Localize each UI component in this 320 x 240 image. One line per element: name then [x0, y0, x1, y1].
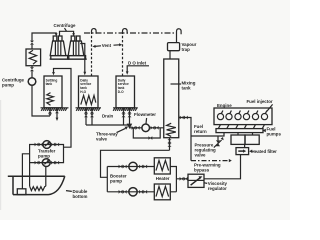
svg-text:H-O: H-O [80, 90, 86, 94]
svg-text:tank: tank [182, 85, 192, 90]
label Booster pump [110, 174, 127, 184]
label Fuel return [194, 124, 207, 134]
wire drain header [86, 124, 130, 126]
daily service tank HO [79, 76, 99, 108]
svg-text:Centrifuge: Centrifuge [54, 23, 77, 28]
heated filter [236, 148, 249, 155]
label Heated filter with arrow [249, 149, 277, 154]
double bottom hull [8, 176, 65, 194]
valves after flowmeter [151, 126, 159, 130]
vent riser HO tank [92, 29, 97, 76]
svg-text:Drain: Drain [102, 114, 114, 119]
pressure regulating valve [214, 136, 224, 148]
centrifuge pump P1 [28, 78, 36, 86]
svg-text:pump: pump [110, 179, 122, 184]
heating coil in double bottom [30, 186, 46, 190]
svg-text:return: return [194, 129, 207, 134]
wire mixing tank bottom drop [168, 138, 172, 151]
booster pump no.1 [129, 162, 137, 170]
booster bottom branch [107, 191, 154, 193]
fuel pump drive links [218, 125, 264, 129]
wire fuel return into mixing tank [179, 116, 191, 161]
label DO inlet with fill line [126, 60, 149, 74]
wire transfer suction from double bottom [22, 154, 29, 189]
pre-warming bypass dash-dot line [191, 159, 232, 162]
centrifuge no.2 (clarifier) [68, 36, 87, 59]
valves before flowmeter [132, 126, 140, 130]
svg-text:valve: valve [96, 136, 108, 141]
wire fuel return header [191, 133, 224, 136]
flowmeter [142, 124, 150, 132]
label Double bottom with leader [66, 189, 88, 199]
booster pump loop left side [106, 167, 108, 192]
wire supply riser to heated filter [204, 155, 241, 179]
valve below heater [30, 66, 34, 78]
wire main line to flowmeter [130, 127, 164, 129]
wire heater outlets join [170, 167, 188, 192]
wire transfer riser to settling tank [52, 69, 71, 148]
transfer pump no.2 [42, 159, 50, 167]
engine cylinders [217, 114, 267, 120]
label Engine [217, 103, 232, 108]
injector ticks on cylinders [221, 111, 267, 114]
label Viscosity regulator [204, 181, 227, 191]
valves transfer bottom branch [35, 161, 60, 165]
booster top branch [107, 166, 154, 168]
svg-text:Fuel injector: Fuel injector [247, 99, 273, 104]
settling tank drain with arrow [55, 108, 59, 121]
fuel pump housing right [245, 135, 259, 144]
label Drain [102, 114, 114, 119]
valves booster top branch [119, 165, 148, 169]
valves before viscosity regulator [180, 177, 188, 181]
heater E1 (centrifuge heater) [26, 49, 41, 66]
fuel pump housing left [231, 135, 245, 144]
engine [214, 108, 272, 125]
valve on centrifuge feed [30, 41, 34, 45]
engine crankcase manifold [216, 129, 263, 133]
wire centrifuge1 to centrifuge2 [60, 31, 76, 36]
valves booster bottom branch [119, 190, 148, 194]
label Heater [156, 176, 170, 181]
wire flowmeter bypass loop [133, 128, 160, 138]
booster pump no.2 [129, 188, 137, 196]
wire centrifuge2 discharge to daily tank HO [80, 44, 86, 76]
label Mixing tank with leader [171, 80, 196, 90]
label Centrifuge pump [2, 78, 25, 88]
label Three-way valve with leader [96, 126, 128, 141]
wire filter to fuel pumps [244, 144, 246, 147]
wire pump suction from settling tank [32, 85, 50, 116]
svg-text:bypass: bypass [194, 167, 210, 172]
svg-text:D-O: D-O [118, 90, 124, 94]
daily tank DO base hatching [113, 108, 138, 111]
label Centrifuge [54, 23, 77, 31]
svg-text:pumps: pumps [267, 131, 282, 136]
svg-text:regulator: regulator [208, 186, 227, 191]
mixing tank [164, 59, 179, 138]
label Transfer pump [38, 148, 56, 158]
settling tank base hatching [41, 108, 69, 111]
label Vapour trap [182, 42, 197, 52]
svg-text:Heated filter: Heated filter [252, 149, 278, 154]
valves transfer top branch [35, 143, 60, 147]
valve on bypass [149, 136, 153, 140]
vent riser DO tank [123, 29, 128, 76]
wire heating coil pipes into double bottom [30, 163, 46, 187]
vapour trap [168, 29, 182, 59]
wire daily tank DO outlet pipes [122, 108, 132, 125]
arrow head into centrifuge1 [55, 33, 58, 36]
svg-text:Vent: Vent [102, 43, 112, 48]
svg-text:pump: pump [2, 83, 14, 88]
label Fuel pumps with arrow [263, 126, 282, 136]
wire daily tank HO outlet pipes [84, 108, 94, 125]
transfer pump loop [30, 145, 64, 163]
svg-text:tank: tank [46, 82, 53, 86]
label Pre-warming bypass [194, 162, 221, 172]
wire centrifuge feed line [32, 33, 56, 49]
svg-text:trap: trap [182, 47, 191, 52]
scan smudge left edge [0, 100, 1, 210]
svg-text:Engine: Engine [217, 103, 232, 108]
steam heater no.1 [154, 158, 170, 174]
svg-text:D O inlet: D O inlet [128, 60, 147, 65]
daily service tank DO [116, 76, 135, 108]
svg-text:valve: valve [195, 153, 207, 158]
suction bellmouth box [17, 189, 26, 195]
settling tank [44, 76, 62, 108]
label Fuel injector with leader [247, 99, 273, 111]
vent main dash-dot line [84, 32, 176, 34]
viscosity regulator [188, 174, 204, 187]
three-way valve junction [127, 124, 133, 129]
wire booster suction header [101, 150, 170, 177]
wires fuel pump housings to manifold [238, 133, 253, 135]
svg-text:Heater: Heater [156, 176, 170, 181]
steam heater no.2 [154, 184, 170, 200]
label Pressure regulating valve [195, 143, 217, 158]
daily tank HO base hatching [76, 108, 102, 111]
centrifuge no.1 (purifier) [50, 36, 69, 59]
svg-text:bottom: bottom [73, 194, 88, 199]
svg-text:Flowmeter: Flowmeter [134, 112, 156, 117]
svg-text:pump: pump [38, 153, 50, 158]
label Vent with arrows [92, 43, 122, 48]
valves on settling tank outlet [48, 110, 52, 116]
label Flowmeter with leader [134, 112, 156, 123]
transfer pump no.1 [43, 141, 51, 149]
